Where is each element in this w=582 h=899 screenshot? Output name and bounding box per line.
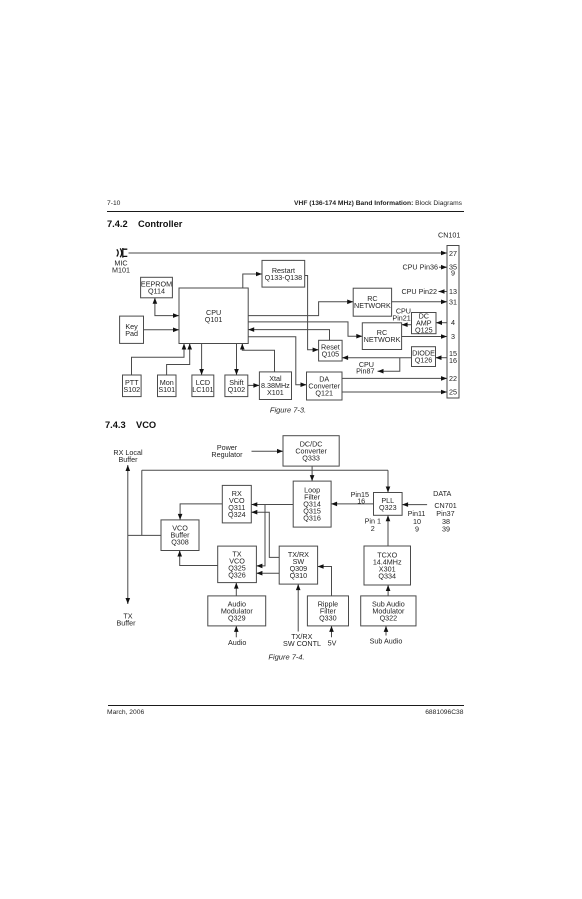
svg-text:16: 16 [449, 356, 457, 365]
svg-text:Q323: Q323 [379, 503, 397, 512]
svg-text:Q121: Q121 [315, 389, 333, 398]
svg-text:Q334: Q334 [378, 572, 396, 581]
svg-text:DATA: DATA [433, 489, 451, 498]
svg-text:Q310: Q310 [290, 571, 308, 580]
svg-text:Q333: Q333 [302, 453, 320, 462]
svg-text:Q133-Q138: Q133-Q138 [265, 273, 303, 282]
svg-text:25: 25 [449, 388, 457, 397]
svg-text:Figure 7-4.: Figure 7-4. [268, 653, 304, 662]
svg-text:NETWORK: NETWORK [354, 301, 391, 310]
svg-text:2: 2 [371, 524, 375, 533]
svg-text:9: 9 [415, 524, 419, 533]
svg-text:Q105: Q105 [322, 350, 340, 359]
svg-text:5V: 5V [328, 639, 337, 648]
svg-text:Q125: Q125 [415, 326, 433, 335]
svg-text:Q126: Q126 [415, 356, 433, 365]
svg-text:31: 31 [449, 298, 457, 307]
svg-text:Q322: Q322 [380, 613, 398, 622]
svg-text:Q101: Q101 [205, 315, 223, 324]
svg-text:Figure 7-3.: Figure 7-3. [270, 406, 306, 415]
svg-text:CPU Pin36: CPU Pin36 [402, 263, 438, 272]
svg-text:16: 16 [357, 497, 365, 506]
svg-text:M101: M101 [112, 266, 130, 275]
svg-text:Regulator: Regulator [211, 450, 243, 459]
svg-text:4: 4 [451, 318, 455, 327]
svg-text:Q324: Q324 [228, 510, 246, 519]
svg-text:13: 13 [449, 287, 457, 296]
svg-text:LC101: LC101 [192, 385, 213, 394]
svg-text:Buffer: Buffer [116, 619, 136, 628]
svg-text:CN101: CN101 [438, 231, 460, 240]
svg-text:SW CONTL: SW CONTL [283, 639, 321, 648]
svg-text:NETWORK: NETWORK [364, 335, 401, 344]
svg-text:Q114: Q114 [148, 287, 165, 296]
svg-text:Q102: Q102 [228, 385, 246, 394]
svg-text:3: 3 [451, 332, 455, 341]
svg-text:Pin21: Pin21 [392, 314, 410, 323]
svg-text:Q326: Q326 [228, 570, 246, 579]
svg-text:Audio: Audio [228, 638, 246, 647]
svg-text:Sub Audio: Sub Audio [370, 637, 403, 646]
svg-text:27: 27 [449, 249, 457, 258]
svg-text:Pin87: Pin87 [356, 367, 374, 376]
svg-text:Q330: Q330 [319, 613, 337, 622]
svg-text:Buffer: Buffer [118, 455, 138, 464]
svg-text:9: 9 [451, 269, 455, 278]
svg-text:S101: S101 [158, 385, 175, 394]
svg-text:X101: X101 [267, 388, 284, 397]
svg-text:Q308: Q308 [171, 538, 189, 547]
svg-text:S102: S102 [123, 385, 140, 394]
svg-text:Pad: Pad [125, 329, 138, 338]
svg-text:Q329: Q329 [228, 613, 246, 622]
svg-text:Q316: Q316 [303, 514, 321, 523]
svg-text:CPU Pin22: CPU Pin22 [401, 287, 437, 296]
svg-text:22: 22 [449, 374, 457, 383]
svg-text:39: 39 [442, 524, 450, 533]
